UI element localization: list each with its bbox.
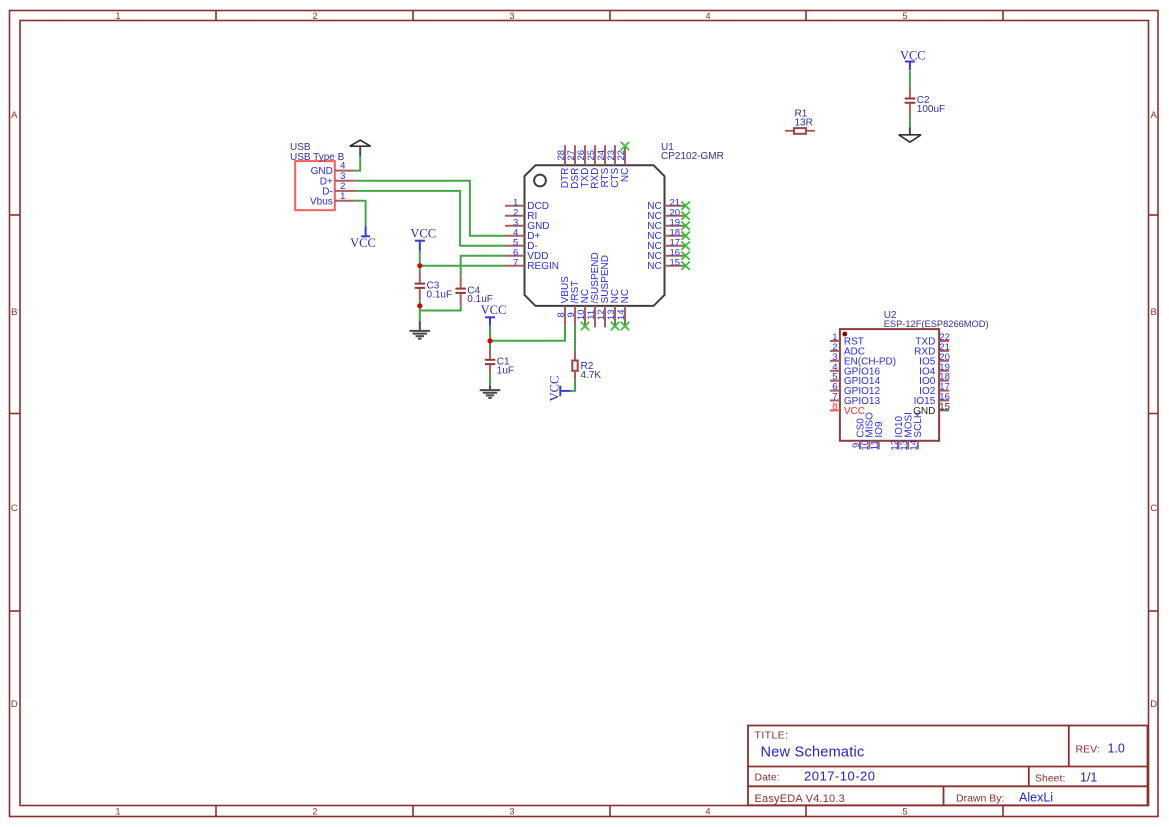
svg-text:14: 14 xyxy=(909,440,920,451)
USB pin 1 Vbus xyxy=(310,191,355,208)
U1 pin 8 VBUS xyxy=(556,276,571,326)
svg-text:1/1: 1/1 xyxy=(1080,770,1097,784)
svg-text:A: A xyxy=(11,110,18,121)
U1 pin 6 VDD xyxy=(505,247,548,262)
U1 pin 17 NC xyxy=(647,237,690,252)
svg-text:TITLE:: TITLE: xyxy=(755,729,789,741)
U2 pin 9 CS0 xyxy=(851,418,867,450)
U2 pin 15 GND xyxy=(913,401,950,417)
U1 pin 15 NC xyxy=(647,257,690,272)
svg-text:22: 22 xyxy=(616,150,627,161)
svg-text:D: D xyxy=(11,699,18,710)
svg-text:4: 4 xyxy=(705,807,710,817)
U1 pin 27 DSR xyxy=(566,145,581,189)
svg-text:IO9: IO9 xyxy=(874,421,885,438)
wire GND net xyxy=(355,156,360,170)
resistor R1 xyxy=(785,109,815,134)
IC U2 ESP-12F body xyxy=(840,310,989,441)
svg-text:NC: NC xyxy=(620,168,631,182)
U1 pin 16 NC xyxy=(647,247,690,262)
svg-text:4: 4 xyxy=(705,11,710,21)
U2 pin 4 GPIO16 xyxy=(830,362,881,378)
svg-text:14: 14 xyxy=(616,310,627,321)
junction node (C3/C4/GND) xyxy=(417,303,422,308)
junction node (REGIN/VCC/C3) xyxy=(417,263,422,268)
U1 pin 2 RI xyxy=(505,207,537,222)
wire C4 to ground node xyxy=(420,305,461,310)
svg-text:3: 3 xyxy=(509,11,514,21)
svg-text:8: 8 xyxy=(832,401,837,412)
wire C2 to ground xyxy=(909,115,911,128)
capacitor C3 xyxy=(415,266,452,306)
wire /RST to R2 xyxy=(574,326,576,351)
U2 pin 13 MOSI xyxy=(899,412,915,451)
U2 left pins group xyxy=(830,332,896,417)
U1 pin 4 D+ xyxy=(505,227,541,242)
power flag VCC (above C2) xyxy=(900,49,926,71)
U1 left pins group xyxy=(505,197,559,272)
svg-text:3: 3 xyxy=(509,807,514,817)
svg-text:2: 2 xyxy=(312,11,317,21)
U2 pin 19 IO4 xyxy=(919,362,950,378)
svg-text:2: 2 xyxy=(312,807,317,817)
U1 right pins group xyxy=(647,197,690,272)
svg-text:New Schematic: New Schematic xyxy=(761,744,865,760)
svg-text:11: 11 xyxy=(870,440,881,450)
ground symbol (flipped triangle) at USB GND xyxy=(350,140,371,156)
U2 pin 2 ADC xyxy=(830,342,865,358)
U2 pin 14 SCLK xyxy=(909,411,925,450)
connector USB (USB Type B) xyxy=(290,142,345,210)
U2 pin 16 IO15 xyxy=(914,392,950,408)
USB pin 4 GND xyxy=(311,161,355,178)
svg-text:4.7K: 4.7K xyxy=(581,370,602,381)
U2 pin 20 IO5 xyxy=(919,352,950,368)
svg-text:NC: NC xyxy=(620,289,631,303)
svg-text:A: A xyxy=(1151,110,1158,121)
wire D- xyxy=(355,191,505,246)
U2 pin 6 GPIO12 xyxy=(830,382,881,398)
svg-text:D: D xyxy=(1150,699,1157,710)
U1 pin 23 CTS xyxy=(606,145,621,188)
svg-text:C: C xyxy=(11,503,18,514)
title block xyxy=(748,726,1148,806)
U2 pin 18 IO0 xyxy=(919,372,950,388)
wire REGIN xyxy=(420,265,505,267)
U2 pin 7 GPIO13 xyxy=(830,392,881,408)
wire VDD xyxy=(461,256,505,277)
svg-text:1: 1 xyxy=(340,191,345,202)
U1 pin 28 DTR xyxy=(556,145,571,188)
U1 pin 10 NC xyxy=(576,289,591,330)
U2 pin 12 IO10 xyxy=(889,415,905,450)
wire VCC to junction xyxy=(419,251,421,265)
U1 pin 5 D- xyxy=(505,237,538,252)
resistor R2 xyxy=(572,351,601,381)
U1 pin 13 NC xyxy=(606,289,621,330)
svg-text:B: B xyxy=(1151,307,1157,318)
svg-text:VCC: VCC xyxy=(410,227,436,241)
power flag VCC (above C1) xyxy=(481,303,507,326)
svg-text:VCC: VCC xyxy=(900,49,926,63)
svg-text:VCC: VCC xyxy=(350,236,376,250)
svg-text:EasyEDA V4.10.3: EasyEDA V4.10.3 xyxy=(755,793,845,805)
capacitor C4 xyxy=(455,277,492,305)
U1 pin 3 GND xyxy=(505,217,550,232)
svg-text:REV:: REV: xyxy=(1076,743,1100,755)
U2 pin 10 MISO xyxy=(860,412,876,451)
title block text xyxy=(755,729,1100,805)
wire VCC-VBUS xyxy=(490,326,565,341)
svg-text:1uF: 1uF xyxy=(497,365,514,376)
svg-text:REGIN: REGIN xyxy=(527,261,559,272)
svg-text:USB Type B: USB Type B xyxy=(290,152,345,163)
wire VCC to C2 xyxy=(909,71,911,88)
svg-text:1: 1 xyxy=(115,807,120,817)
svg-text:1.0: 1.0 xyxy=(1108,741,1125,755)
svg-text:SCLK: SCLK xyxy=(913,411,924,437)
U1 pin 9 /RST xyxy=(566,281,581,326)
U1 bottom pins group xyxy=(556,252,631,330)
svg-text:2017-10-20: 2017-10-20 xyxy=(804,769,876,784)
junction node (VBUS/C1/VCC) xyxy=(487,338,492,343)
svg-text:CP2102-GMR: CP2102-GMR xyxy=(661,151,724,162)
svg-text:VCC: VCC xyxy=(844,406,865,417)
ground (earth bars) below C1 xyxy=(480,385,501,398)
USB pin 3 D+ xyxy=(320,171,355,188)
svg-text:5: 5 xyxy=(902,11,907,21)
U2 pin 5 GPIO14 xyxy=(830,372,881,388)
U1 pin 25 RXD xyxy=(586,145,601,189)
svg-text:Vbus: Vbus xyxy=(310,196,333,207)
svg-text:5: 5 xyxy=(902,807,907,817)
svg-text:AlexLi: AlexLi xyxy=(1019,790,1053,804)
U2 pin 3 EN(CH-PD) xyxy=(830,352,896,368)
ground (triangle) below C2 xyxy=(899,127,921,142)
svg-text:VCC: VCC xyxy=(481,303,507,317)
U2 right pins group xyxy=(913,332,950,417)
svg-text:B: B xyxy=(11,307,17,318)
capacitor C2 xyxy=(905,87,945,115)
U1 pin 21 NC xyxy=(647,197,690,212)
U2 pin 1 RST xyxy=(830,332,864,348)
wire D+ xyxy=(355,181,505,236)
svg-text:15: 15 xyxy=(939,401,950,412)
U2 pin 17 IO2 xyxy=(919,382,950,398)
U1 pin 11 /SUSPEND xyxy=(586,252,601,327)
svg-text:C: C xyxy=(1150,503,1157,514)
svg-text:13R: 13R xyxy=(795,118,813,129)
USB pin 2 D- xyxy=(322,181,355,198)
U1 pin 19 NC xyxy=(647,217,690,232)
svg-text:VCC: VCC xyxy=(547,376,561,402)
U1 pin 14 NC xyxy=(616,289,631,330)
svg-text:7: 7 xyxy=(513,257,518,268)
U2 pin 8 VCC xyxy=(830,401,865,417)
ground (earth bars) below C3 xyxy=(410,321,431,339)
IC U1 CP2102-GMR body xyxy=(525,142,724,306)
wire C3 to ground xyxy=(419,306,421,321)
svg-text:Sheet:: Sheet: xyxy=(1035,772,1065,784)
svg-text:100uF: 100uF xyxy=(917,104,945,115)
U1 pin 26 TXD xyxy=(576,145,591,188)
U2 pin 11 IO9 xyxy=(870,421,886,450)
U2 bottom pins group xyxy=(851,411,924,450)
capacitor C1 xyxy=(485,341,514,386)
U1 pin 18 NC xyxy=(647,227,690,242)
U1 pin 24 RTS xyxy=(596,145,611,187)
power flag VCC (left of R2, rotated) xyxy=(547,376,570,402)
U2 pin 21 RXD xyxy=(914,342,950,358)
U1 pin 22 NC xyxy=(616,142,631,182)
svg-text:NC: NC xyxy=(647,261,661,272)
U2 pin 22 TXD xyxy=(915,332,950,348)
svg-text:ESP-12F(ESP8266MOD): ESP-12F(ESP8266MOD) xyxy=(884,319,989,329)
power flag VCC (above C3) xyxy=(410,227,436,252)
U1 pin 20 NC xyxy=(647,207,690,222)
U1 top pins group xyxy=(556,142,631,189)
svg-text:0.1uF: 0.1uF xyxy=(427,289,453,300)
wire Vbus to VCC xyxy=(355,201,366,226)
wire R2 to VCC xyxy=(571,381,576,391)
U1 pin 1 DCD xyxy=(505,197,549,212)
U1 pin 7 REGIN xyxy=(505,257,559,272)
svg-text:1: 1 xyxy=(115,11,120,21)
svg-text:Date:: Date: xyxy=(755,771,780,783)
svg-text:15: 15 xyxy=(670,257,681,268)
svg-text:Drawn By:: Drawn By: xyxy=(956,792,1004,804)
power flag VCC (below Vbus) xyxy=(350,226,376,250)
U1 pin 12 SUSPEND xyxy=(596,255,611,327)
